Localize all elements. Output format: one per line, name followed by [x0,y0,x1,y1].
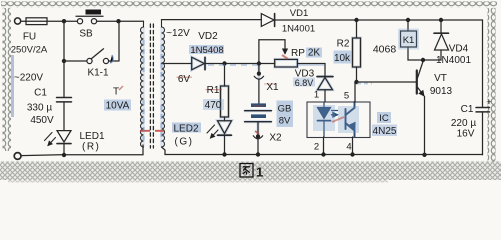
diode VD1 [261,14,274,27]
bluish scan fringes [142,40,144,140]
svg-text:220 µ: 220 µ [451,118,476,129]
transformer core [150,24,153,148]
node junction [256,152,260,156]
svg-text:LED2: LED2 [173,124,198,135]
wire [47,20,77,22]
node junction [62,153,66,157]
woven bottom band [0,162,501,181]
svg-text:R2: R2 [337,39,350,50]
svg-text:4N25: 4N25 [373,126,397,137]
bottom terminal [14,153,21,160]
svg-text:VT: VT [434,73,447,84]
svg-text:(G): (G) [175,137,194,148]
resistor R1 [224,64,226,87]
relay contact K1-1 [64,60,87,62]
IC internal LED [318,102,338,137]
svg-text:330 µ: 330 µ [27,103,52,114]
node junction [421,58,425,62]
connector X1 [258,64,260,72]
wire base [357,81,417,83]
svg-text:FU: FU [23,32,36,43]
svg-text:C1: C1 [461,104,474,115]
node junction [257,61,261,65]
svg-text:1N5408: 1N5408 [190,45,223,56]
svg-text:~12V: ~12V [166,28,190,39]
svg-text:X2: X2 [269,133,282,144]
decorative chain border strips [1,2,497,9]
svg-text:6.8V: 6.8V [295,78,314,88]
svg-text:X1: X1 [266,82,279,93]
svg-text:1: 1 [256,165,263,180]
battery GB [251,103,266,107]
node junction [222,61,226,65]
svg-text:5: 5 [344,91,349,102]
wire [205,63,275,65]
svg-text:10VA: 10VA [106,101,130,112]
svg-text:RP: RP [291,48,305,59]
wire pin4 [352,137,354,155]
node junction [321,152,325,156]
capacitor C1 220u right [482,20,484,107]
wire bottom-left rail [21,145,143,156]
svg-text:1N4001: 1N4001 [436,55,471,66]
svg-text:250V/2A: 250V/2A [11,45,48,56]
svg-text:450V: 450V [30,115,54,126]
svg-text:IC: IC [379,113,389,124]
terminal top-left [15,18,21,24]
blue scan halos [144,27,361,147]
highlight smudges (scan artifacts) [11,29,419,143]
node junction [354,80,358,84]
svg-text:~220V: ~220V [14,73,44,84]
IC internal phototransistor [346,102,355,137]
node junction [62,59,66,63]
svg-text:470: 470 [205,100,222,111]
caption 图 1 [240,164,253,178]
connector X2 [256,134,260,138]
svg-text:LED1: LED1 [80,131,105,142]
svg-text:C1: C1 [34,88,47,99]
node junction [116,19,120,23]
relay coil K1 [407,20,409,31]
svg-text:6V: 6V [178,74,191,85]
diode VD4 [440,20,442,33]
svg-text:2: 2 [314,142,319,153]
svg-text:VD4: VD4 [449,44,469,55]
IC 4N25 box [307,102,370,138]
wire top rail to right [275,19,483,21]
bottom rail secondary [165,154,483,156]
transistor VT 9013 [416,71,418,94]
svg-text:9013: 9013 [430,86,453,97]
svg-text:+: + [486,97,492,108]
fuse FU [26,18,47,25]
node junction [354,18,358,22]
wire top rail 12V [162,19,262,21]
LED1 [57,131,71,142]
paper background [0,0,501,186]
node junction [62,19,66,23]
wire [97,20,144,22]
svg-text:VD1: VD1 [290,8,308,19]
node junction [422,153,426,157]
diode VD2 [192,57,205,70]
node junction [406,18,410,22]
svg-text:2K: 2K [308,48,321,59]
svg-text:K1: K1 [403,35,415,46]
svg-text:1N4001: 1N4001 [282,24,315,35]
transformer T secondary winding [162,20,165,147]
wire [21,20,26,22]
potentiometer RP body [275,59,298,67]
svg-text:VD2: VD2 [198,31,218,42]
svg-text:(R): (R) [82,142,100,153]
svg-text:GB: GB [278,104,292,115]
svg-text:10k: 10k [334,53,351,64]
wire secondary bottom lead [162,147,166,155]
svg-text:SB: SB [79,29,93,40]
wire pin2 [323,137,325,155]
svg-text:4068: 4068 [373,44,397,56]
LED2 [218,121,232,134]
wire C1 branch [63,21,65,97]
svg-text:16V: 16V [457,129,475,140]
zener VD3 [317,76,333,78]
pushbutton SB [77,19,82,24]
main group [14,10,489,160]
transformer T primary winding [141,21,144,147]
wire 6V tap rail [162,63,192,65]
svg-text:K1-1: K1-1 [87,68,109,79]
capacitor C1 330u [57,98,72,102]
svg-text:R1: R1 [207,85,220,96]
node junction [439,18,443,22]
svg-text:1: 1 [314,90,319,101]
svg-text:8V: 8V [279,116,291,127]
node junction [350,152,354,156]
wire rail after RP [297,64,325,77]
wire [63,102,65,130]
resistor R2 [356,20,358,38]
potentiometer RP loop and wiper [259,40,285,64]
node junction [222,152,226,156]
wire [257,122,259,135]
svg-text:T: T [113,87,119,98]
wire pin5 to base node [354,82,356,102]
svg-text:4: 4 [346,142,351,153]
